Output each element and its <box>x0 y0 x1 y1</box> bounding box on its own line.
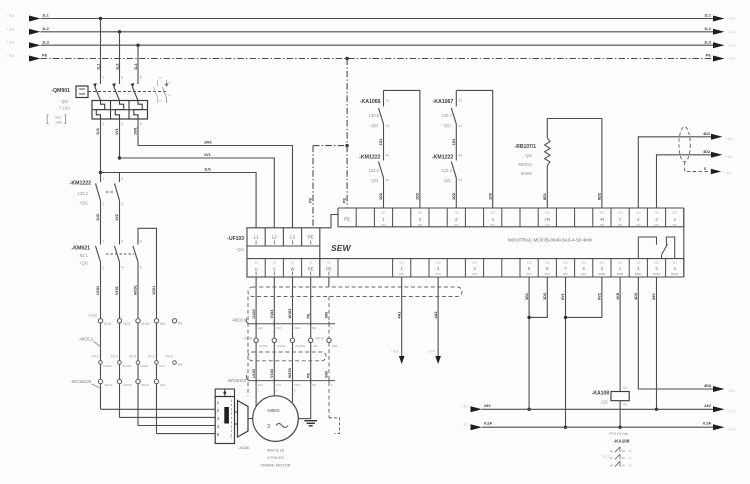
svg-text:PE: PE <box>706 53 712 58</box>
svg-text:/6.2: /6.2 <box>628 449 633 453</box>
shield left boundary <box>247 297 249 397</box>
wire U101 <box>100 262 102 409</box>
arrow 0V right <box>713 424 725 430</box>
svg-text:2: 2 <box>102 202 104 206</box>
svg-text:W103: W103 <box>288 309 292 319</box>
svg-text:1W1: 1W1 <box>134 127 138 135</box>
svg-text:4: 4 <box>121 202 123 206</box>
svg-text:/6.2: /6.2 <box>628 456 633 460</box>
arrow DO right <box>713 386 725 392</box>
svg-text:X12: X12 <box>581 261 586 265</box>
svg-text:24V: 24V <box>704 404 711 408</box>
svg-text:DI0: DI0 <box>381 223 386 227</box>
wire DI01 jumper <box>529 277 547 317</box>
svg-text:X2: X2 <box>309 261 313 265</box>
arrow 0V left <box>471 424 483 430</box>
arrow right 1L3 <box>713 42 725 48</box>
svg-text:4A1: 4A1 <box>397 312 401 319</box>
svg-text:L2: L2 <box>272 235 277 240</box>
svg-text:1: 1 <box>102 177 104 181</box>
svg-text:/ 6.1: / 6.1 <box>726 155 733 159</box>
inverter MOVITRAC outline <box>338 207 684 209</box>
resistor RB107/1 zigzag <box>545 138 550 166</box>
relay contact KA1066 <box>383 90 385 106</box>
breaker QM901 thermal element pole 1 <box>96 101 104 120</box>
svg-text:X13: X13 <box>636 210 641 214</box>
svg-text:U1011: U1011 <box>259 344 268 348</box>
connector X138 bracket <box>231 400 233 440</box>
svg-text:S: S <box>331 326 333 330</box>
svg-text:/ 2.1: / 2.1 <box>728 17 735 21</box>
wire RB107 top <box>547 119 602 209</box>
svg-text:X13: X13 <box>454 210 459 214</box>
svg-text:1D3: 1D3 <box>488 193 492 200</box>
svg-text:L1: L1 <box>254 235 259 240</box>
svg-text:-X138: -X138 <box>238 445 249 450</box>
svg-text:122.2: 122.2 <box>441 168 452 173</box>
svg-text:PT2 24Vdc: PT2 24Vdc <box>609 432 628 436</box>
wire W motor <box>292 277 294 324</box>
node feeder L2 <box>118 156 121 159</box>
svg-text:X0.3: X0.3 <box>129 355 136 359</box>
wire bus 1L2 <box>41 31 714 33</box>
svg-text:DI0: DI0 <box>618 223 623 227</box>
svg-text:A2: A2 <box>623 402 627 406</box>
wire to connector pin 2 <box>101 408 216 410</box>
node jumper 1 <box>527 316 530 319</box>
svg-text:-UF103: -UF103 <box>227 236 244 242</box>
motor plug <box>238 401 249 438</box>
svg-text:U101F: U101F <box>103 364 112 368</box>
svg-text:3: 3 <box>267 424 270 430</box>
node PE branch <box>345 144 348 147</box>
svg-text:U101: U101 <box>104 322 112 326</box>
node feeder L1 <box>99 171 102 174</box>
svg-text:V101N: V101N <box>122 364 131 368</box>
svg-text:V: V <box>273 267 276 272</box>
svg-text:-KM1222: -KM1222 <box>70 181 91 187</box>
svg-text:X12: X12 <box>672 261 677 265</box>
svg-text:1L2: 1L2 <box>42 26 50 31</box>
svg-text:PE: PE <box>309 197 313 203</box>
svg-text:3: 3 <box>121 177 123 181</box>
svg-text:3D1: 3D1 <box>525 293 529 300</box>
svg-text:1V4: 1V4 <box>276 326 281 330</box>
wire branch return <box>384 90 420 208</box>
arrow right 1L1 <box>713 16 725 22</box>
arrow 4A2 down <box>435 356 441 364</box>
svg-text:4: 4 <box>121 122 123 126</box>
svg-text:-QG: -QG <box>443 178 451 183</box>
wire KM621 pole1 top stub <box>100 237 102 245</box>
svg-text:DO01: DO01 <box>599 272 606 276</box>
svg-text:0V1: 0V1 <box>561 293 565 300</box>
shield drain to arrow <box>685 162 710 172</box>
svg-text:DO01: DO01 <box>653 272 660 276</box>
svg-text:/ 2.1: / 2.1 <box>728 30 735 34</box>
wire coil to 0V <box>619 401 621 428</box>
svg-text:[: [ <box>46 114 49 125</box>
svg-text:1V1: 1V1 <box>204 153 211 157</box>
wire to connector pin 4 <box>138 425 215 427</box>
svg-text:1L2: 1L2 <box>704 26 712 31</box>
svg-text:6: 6 <box>140 266 142 270</box>
svg-text:DO01: DO01 <box>671 272 678 276</box>
svg-text:-WC1B103: -WC1B103 <box>71 379 92 384</box>
svg-text:DI01: DI01 <box>435 272 441 276</box>
wire bus PE <box>41 58 714 60</box>
svg-text:-RB107/1: -RB107/1 <box>515 144 537 150</box>
svg-text:/6.2: /6.2 <box>628 463 633 467</box>
svg-text:4kW 8.1A: 4kW 8.1A <box>267 448 285 453</box>
wire V101 <box>119 262 121 417</box>
shield right boundary <box>328 297 330 418</box>
svg-text:PE: PE <box>178 363 183 367</box>
svg-text:-QG: -QG <box>60 99 68 104</box>
inverter top terminal row <box>355 208 357 227</box>
wire analog 4A2 <box>437 277 439 356</box>
svg-text:MOVITRAC MC07B-0040-5A3-4-S0 4: MOVITRAC MC07B-0040-5A3-4-S0 4kW <box>508 238 593 243</box>
svg-text:-KM1222: -KM1222 <box>359 155 380 161</box>
svg-text:1U4: 1U4 <box>258 326 264 330</box>
svg-text:800W: 800W <box>521 171 532 176</box>
svg-text:V101N: V101N <box>123 383 132 387</box>
svg-text:4D3: 4D3 <box>634 293 638 300</box>
svg-text:DO01: DO01 <box>617 272 624 276</box>
svg-text:1U4: 1U4 <box>258 383 264 387</box>
svg-text:130.7: 130.7 <box>441 113 452 118</box>
svg-text:-QG: -QG <box>236 247 244 252</box>
node coil 0V <box>618 426 621 429</box>
node L3 drop <box>136 44 139 47</box>
motor M903 <box>253 396 299 442</box>
svg-text:X12: X12 <box>636 261 641 265</box>
svg-text:14: 14 <box>622 449 626 453</box>
svg-text:DI0: DI0 <box>673 223 678 227</box>
terminal row 3 <box>98 379 102 383</box>
breaker QM901 aux contacts <box>157 80 159 86</box>
svg-text:13: 13 <box>159 76 163 80</box>
svg-text:-KM1222: -KM1222 <box>432 155 453 161</box>
contactor KM1222 linkage <box>106 191 114 193</box>
svg-text:X13: X13 <box>381 210 386 214</box>
svg-text:DI0: DI0 <box>600 223 605 227</box>
connector X138 body <box>215 397 234 444</box>
wire PE to inverter <box>346 146 348 208</box>
breaker QM901 thermal element pole 2 <box>115 101 123 120</box>
svg-text:-QG: -QG <box>370 123 378 128</box>
svg-text:4D1: 4D1 <box>703 132 710 136</box>
wire relay coil feed <box>619 277 621 392</box>
wires row A to row B <box>255 324 257 338</box>
wire W101 <box>137 262 139 426</box>
svg-text:/ 2.1: / 2.1 <box>728 57 735 61</box>
svg-text:W1013: W1013 <box>295 344 305 348</box>
wire bus 1L1 <box>41 18 714 20</box>
svg-text:4A2: 4A2 <box>434 312 438 319</box>
wire RB107 left <box>546 166 548 209</box>
arrow 4A1 down <box>399 356 405 364</box>
wire feeder L3 to filter <box>138 146 293 228</box>
svg-text:14: 14 <box>159 99 163 103</box>
wire GND jumper <box>566 277 602 317</box>
svg-text:DI01: DI01 <box>399 272 405 276</box>
wire PE motor <box>310 277 312 324</box>
svg-text:2: 2 <box>102 122 104 126</box>
svg-text:X2: X2 <box>273 261 277 265</box>
svg-text:-KA1067: -KA1067 <box>433 99 454 105</box>
wire PE branch to filter <box>313 145 347 147</box>
svg-text:-QG: -QG <box>524 153 532 158</box>
wire 1W1 <box>137 119 139 146</box>
wire rail 0V <box>482 426 713 428</box>
svg-text:/ 9.8: / 9.8 <box>7 27 14 31</box>
wire L3 drop <box>137 45 139 84</box>
svg-text:44: 44 <box>458 178 462 182</box>
svg-text:-X0.3: -X0.3 <box>90 355 98 359</box>
svg-text:1U2: 1U2 <box>96 214 100 221</box>
svg-text:X12: X12 <box>618 261 623 265</box>
svg-text:1L1: 1L1 <box>42 13 50 18</box>
svg-text:-X0.2: -X0.2 <box>88 314 97 318</box>
wire U motor <box>255 277 257 324</box>
svg-text:43: 43 <box>386 154 390 158</box>
svg-text:/ 9.8: / 9.8 <box>7 41 14 45</box>
svg-text:1D3: 1D3 <box>416 193 420 200</box>
breaker QM901 linkage <box>88 91 168 93</box>
svg-text:PE: PE <box>312 383 316 387</box>
wire to connector pin 3 <box>120 416 216 418</box>
svg-text:-M903: -M903 <box>267 408 280 413</box>
connector X138 shield box <box>215 389 234 397</box>
svg-text:DI0: DI0 <box>636 223 641 227</box>
breaker QM901 thermal element pole 3 <box>134 101 142 120</box>
svg-text:44: 44 <box>386 178 390 182</box>
svg-text:V101: V101 <box>123 322 131 326</box>
wire DI00 <box>528 277 530 409</box>
svg-text:U103: U103 <box>252 369 256 378</box>
svg-text:DI01: DI01 <box>526 272 532 276</box>
svg-text:0.2A: 0.2A <box>703 422 711 426</box>
svg-text:-QM901: -QM901 <box>51 88 70 94</box>
svg-text:]: ] <box>64 114 67 125</box>
filter UF103 box <box>247 228 320 277</box>
svg-text:123.2: 123.2 <box>78 191 89 196</box>
wire V motor <box>273 277 275 324</box>
svg-text:/ 6.1: / 6.1 <box>728 389 735 393</box>
svg-text:W101: W101 <box>141 364 149 368</box>
svg-text:1L1: 1L1 <box>96 63 100 70</box>
svg-text:1D1: 1D1 <box>452 139 456 146</box>
svg-text:22: 22 <box>168 93 172 97</box>
svg-text:/ 9.8: / 9.8 <box>7 14 14 18</box>
svg-text:1D2: 1D2 <box>452 193 456 200</box>
ground symbol <box>304 420 317 422</box>
svg-text:X13: X13 <box>418 210 423 214</box>
svg-text:L3: L3 <box>290 235 295 240</box>
svg-text:W103: W103 <box>288 368 292 378</box>
wire branch return <box>456 90 492 208</box>
svg-text:8D2: 8D2 <box>598 193 602 200</box>
svg-text:/ 7.1: / 7.1 <box>728 409 735 413</box>
svg-text:-QG: -QG <box>443 123 451 128</box>
svg-text:SEW: SEW <box>331 243 351 253</box>
svg-text:S06: S06 <box>325 312 329 319</box>
wire feeder L2 to filter <box>120 158 275 228</box>
svg-text:W101: W101 <box>134 285 138 295</box>
inverter bottom terminal row <box>246 259 248 277</box>
svg-text:PE: PE <box>344 216 350 221</box>
svg-text:7-10A: 7-10A <box>59 106 70 111</box>
svg-text:DI0: DI0 <box>491 223 496 227</box>
svg-text:V101: V101 <box>115 286 119 295</box>
svg-text:0.2A: 0.2A <box>484 422 492 426</box>
svg-text:1V2: 1V2 <box>115 214 119 221</box>
svg-text:FRAME MOTOR: FRAME MOTOR <box>261 463 291 468</box>
svg-text:1W1: 1W1 <box>204 141 212 145</box>
svg-text:-QG: -QG <box>370 178 378 183</box>
wire DO to arrow <box>638 277 713 389</box>
svg-text:130.6: 130.6 <box>369 113 380 118</box>
svg-text:/ 6.4: / 6.4 <box>428 350 435 354</box>
svg-text:63.1: 63.1 <box>80 253 89 258</box>
arrow output 2 <box>711 152 723 158</box>
svg-text:14: 14 <box>386 124 390 128</box>
svg-text:24V: 24V <box>652 293 656 300</box>
svg-text:1K8: 1K8 <box>616 293 620 300</box>
svg-text:1U1: 1U1 <box>204 168 211 172</box>
svg-text:W101: W101 <box>141 322 150 326</box>
arrow left 1L2 <box>29 29 41 35</box>
svg-text:+QG: +QG <box>79 261 88 266</box>
wire L1 drop <box>100 19 102 85</box>
arrow left PE <box>29 56 41 62</box>
svg-text:3: 3 <box>121 76 123 80</box>
svg-text:-X0.8: -X0.8 <box>243 336 252 340</box>
arrow right 1L2 <box>713 29 725 35</box>
wires row B down <box>255 343 257 381</box>
svg-text:10A: 10A <box>55 121 62 125</box>
svg-text:5: 5 <box>140 240 142 244</box>
svg-text:1W4: 1W4 <box>294 326 300 330</box>
node L1 drop <box>99 17 102 20</box>
svg-text:-QG: -QG <box>600 400 608 405</box>
svg-text:1W4: 1W4 <box>294 383 300 387</box>
svg-text:/ 6.3: / 6.3 <box>391 350 398 354</box>
svg-text:U101F: U101F <box>104 383 113 387</box>
wire DO common <box>656 277 658 409</box>
svg-text:X0.3: X0.3 <box>148 355 155 359</box>
breaker QM901 thermal overload box <box>92 101 148 120</box>
svg-text:5: 5 <box>140 76 142 80</box>
svg-text:2: 2 <box>102 266 104 270</box>
svg-text:X12: X12 <box>399 261 404 265</box>
contactor KM621 linkage <box>106 253 134 255</box>
svg-text:V103: V103 <box>270 310 274 319</box>
svg-text:DI0: DI0 <box>545 223 550 227</box>
svg-text:DI0: DI0 <box>454 223 459 227</box>
svg-text:X13: X13 <box>490 210 495 214</box>
svg-text:8D1: 8D1 <box>543 193 547 200</box>
svg-text:X12: X12 <box>654 261 659 265</box>
wire feeder L1 to filter <box>101 173 257 228</box>
svg-text:S: S <box>331 383 333 387</box>
wire rail 24V <box>482 408 713 410</box>
svg-text:Set: Set <box>55 116 62 120</box>
svg-text:PE: PE <box>326 267 332 272</box>
svg-text:-R: -R <box>600 217 604 222</box>
shield racetrack cable WCM103 <box>248 352 326 361</box>
shield ellipse <box>679 127 690 162</box>
wire DO output 2 <box>657 155 713 208</box>
wire analog 4A1 <box>401 277 403 356</box>
svg-text:13: 13 <box>609 449 613 453</box>
svg-text:DI01: DI01 <box>545 272 551 276</box>
svg-text:DI01: DI01 <box>472 272 478 276</box>
svg-text:1L3: 1L3 <box>42 39 50 44</box>
svg-text:-KM621: -KM621 <box>72 246 91 252</box>
svg-text:PE: PE <box>314 344 318 348</box>
svg-text:X12: X12 <box>600 261 605 265</box>
svg-text:1: 1 <box>102 240 104 244</box>
svg-text:21: 21 <box>168 80 172 84</box>
svg-text:4 POLES: 4 POLES <box>267 455 284 460</box>
svg-text:A1: A1 <box>623 386 627 390</box>
svg-text:/ 6.1: / 6.1 <box>725 172 732 176</box>
wire PE drop dash-dot <box>346 59 348 146</box>
svg-text:PE: PE <box>42 53 48 58</box>
svg-text:4: 4 <box>121 266 123 270</box>
svg-text:W: W <box>291 267 295 272</box>
terminal PE row X0.2 <box>172 319 176 323</box>
node DCOM 0V <box>564 426 567 429</box>
svg-text:1L3: 1L3 <box>704 39 712 44</box>
svg-text:/ 9.8: / 9.8 <box>7 54 14 58</box>
svg-text:W101: W101 <box>141 383 149 387</box>
svg-text:S08: S08 <box>332 344 338 348</box>
svg-text:-KA108: -KA108 <box>592 391 609 397</box>
svg-text:14: 14 <box>622 463 626 467</box>
shield drain tail <box>329 418 340 434</box>
arrow 24V right <box>713 406 725 412</box>
shield racetrack cable WC0.6 <box>248 287 462 297</box>
svg-text:DI01: DI01 <box>563 272 569 276</box>
wire bus 1L3 <box>41 44 714 46</box>
svg-text:68Ohm: 68Ohm <box>518 162 532 167</box>
svg-text:24V: 24V <box>484 404 491 408</box>
filter to inverter link <box>320 215 338 228</box>
svg-text:-KA108: -KA108 <box>614 438 630 443</box>
svg-text:V1012: V1012 <box>277 344 286 348</box>
svg-text:X13: X13 <box>672 210 677 214</box>
svg-text:1V1: 1V1 <box>115 128 119 135</box>
svg-text:1G21: 1G21 <box>152 286 156 295</box>
svg-text:PE: PE <box>312 326 316 330</box>
svg-text:1D2: 1D2 <box>379 193 383 200</box>
svg-text:PE: PE <box>306 372 310 378</box>
svg-text:+QG: +QG <box>79 201 88 206</box>
svg-text:13: 13 <box>386 99 390 103</box>
svg-text:X12: X12 <box>545 261 550 265</box>
svg-text:/ 6.1: / 6.1 <box>462 405 469 409</box>
arrow right PE <box>713 56 725 62</box>
svg-text:14: 14 <box>622 456 626 460</box>
wire DO output 1 <box>638 137 712 208</box>
svg-text:4D2: 4D2 <box>703 150 710 154</box>
svg-text:-X0.8: -X0.8 <box>315 336 324 340</box>
svg-text:1U1: 1U1 <box>96 128 100 135</box>
svg-text:PE: PE <box>178 322 183 326</box>
